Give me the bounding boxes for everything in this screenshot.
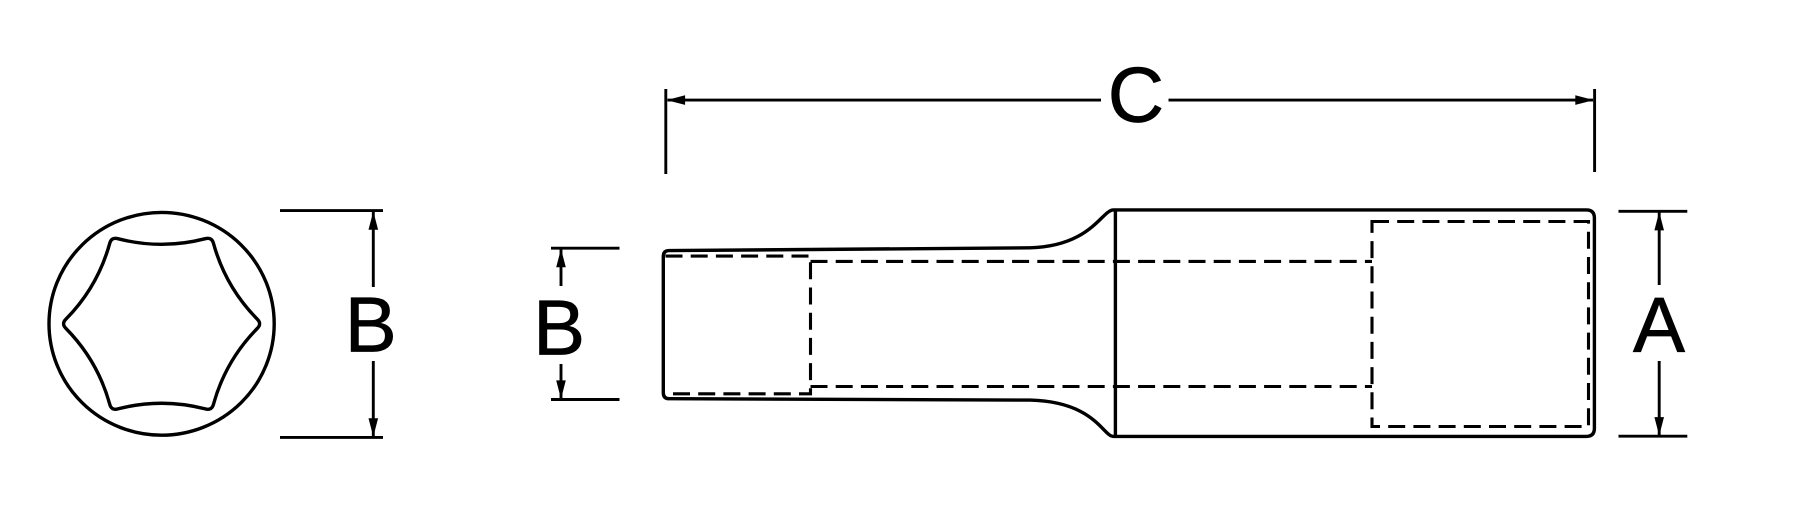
svg-text:C: C [1108, 51, 1164, 139]
6-point hex opening profile [64, 238, 260, 409]
svg-text:B: B [345, 280, 397, 368]
dimension B (end view) bottom extension line [280, 436, 383, 439]
dimension B (side view) top extension line [551, 247, 620, 250]
socket side-view outline [663, 210, 1594, 437]
dimension B (end view) top extension line [280, 209, 383, 212]
dimension A top extension line [1619, 210, 1688, 213]
svg-text:A: A [1633, 281, 1685, 369]
hidden square drive hole (dashed) [1372, 222, 1589, 427]
dimension A bottom extension line [1619, 435, 1688, 438]
dimension B (side view) bottom extension line [551, 398, 620, 401]
hidden hex opening depth (dashed) [666, 256, 811, 394]
dimension C dimension line with arrows [668, 99, 1102, 102]
dimension A dimension line with arrows [1658, 213, 1661, 286]
dimension B (side view) dimension line with arrows [560, 250, 563, 287]
shoulder line [1114, 210, 1117, 437]
dimension B (end view) dimension line with arrows [372, 212, 375, 287]
dimension C left extension line [664, 89, 667, 174]
socket end-view outer circle [49, 212, 274, 435]
svg-text:B: B [533, 284, 585, 372]
dimension C right extension line [1593, 89, 1596, 172]
hidden bore lines (dashed) [811, 260, 1373, 263]
